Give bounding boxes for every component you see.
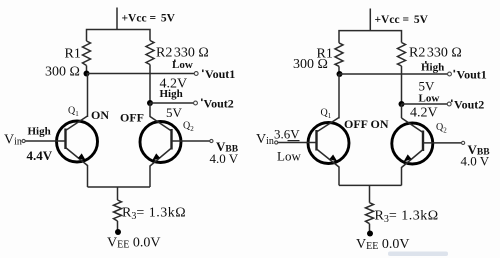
node junction dot A: R1 / Q1 collector / Vout1 (left)	[84, 71, 90, 77]
tick mark above Low (left)	[174, 60, 176, 63]
svg-text:Vout2: Vout2	[204, 97, 234, 111]
transistor Q2 (left, OFF) circle	[140, 122, 181, 163]
wire Vcc supply stub (right)	[369, 9, 371, 31]
svg-text:4.0 V: 4.0 V	[461, 153, 490, 168]
svg-text:3.6V: 3.6V	[274, 127, 300, 142]
node junction dot B2: R2 / Q2 collector / Vout2 (right)	[399, 101, 405, 107]
terminal Vout1 open circle (left)	[194, 72, 198, 76]
transistor Q2 emitter arrowhead	[152, 153, 160, 160]
node junction dot A2: R1 / Q1 collector / Vout1 (right)	[337, 71, 343, 77]
tick mark before Vout2 (right)	[451, 100, 453, 103]
svg-text:+Vcc = 5V: +Vcc = 5V	[122, 13, 176, 25]
svg-text:4.2V: 4.2V	[410, 106, 438, 121]
wire R2 bottom lead down to node B2 (right)	[401, 66, 403, 104]
transistor Q2 emitter diagonal	[150, 148, 172, 166]
transistor Q2 collector diagonal	[150, 117, 172, 132]
transistor Q1 collector diagonal	[66, 116, 88, 131]
svg-text:VEE 0.0V: VEE 0.0V	[356, 237, 409, 252]
resistor R2 (right, 330 ohm): top stub, zigzag	[398, 43, 406, 67]
svg-text:OFF: OFF	[344, 117, 368, 131]
transistor Q1 collector diagonal (right)	[317, 118, 340, 133]
transistor Q2 (right, ON) circle	[392, 123, 433, 164]
wire top rail (left)	[87, 30, 151, 42]
transistor Q1 emitter diagonal (right)	[317, 149, 340, 167]
svg-text:+Vcc = 5V: +Vcc = 5V	[375, 14, 429, 26]
svg-text:VEE 0.0V: VEE 0.0V	[107, 236, 160, 251]
wire Q2 emitter down to tail rail (right)	[401, 167, 403, 185]
terminal Vin open circle (right)	[275, 141, 278, 144]
svg-text:4.0 V: 4.0 V	[210, 151, 239, 166]
transistor Q2 collector diagonal (right)	[402, 118, 424, 133]
svg-text:Vout2: Vout2	[454, 98, 484, 112]
svg-text:300 Ω: 300 Ω	[293, 57, 328, 72]
wire Q1 collector lead vertical (right)	[338, 74, 340, 119]
terminal Vout2 open circle (right)	[447, 102, 451, 106]
transistor Q2 base bar	[170, 129, 172, 150]
wire Q2 base lead to VBB terminal (left)	[172, 140, 210, 142]
wire Q1 collector lead vertical (left)	[87, 74, 89, 118]
transistor Q1 (left, ON) circle	[57, 121, 98, 162]
resistor R1 (left, 300 ohm) zigzag	[83, 41, 91, 66]
resistor R2 (left, 330 ohm): top stub, zigzag	[146, 41, 154, 65]
tick mark before Vout1 (right)	[454, 70, 456, 73]
wire Q2 collector lead vertical (right)	[401, 104, 403, 118]
svg-text:High: High	[160, 88, 183, 100]
wire Q2 collector lead vertical (left)	[149, 103, 151, 117]
svg-text:R1: R1	[65, 47, 81, 62]
wire tail rail to R3 (right)	[369, 185, 371, 202]
terminal Vout2 open circle (left)	[194, 101, 198, 105]
svg-text:R2330 Ω: R2330 Ω	[156, 46, 209, 61]
wire common emitter tail rail (right)	[339, 184, 402, 186]
transistor Q1 (right, OFF) circle	[308, 123, 349, 164]
transistor Q1 emitter diagonal	[66, 148, 88, 166]
wire node B to Vout2 terminal (left)	[150, 102, 194, 104]
transistor Q2 emitter diagonal (right)	[402, 150, 424, 168]
wire R3 to VEE node (right)	[369, 224, 371, 233]
resistor R1 (right, 300 ohm) zigzag	[335, 43, 343, 66]
svg-text:4.4V: 4.4V	[27, 148, 53, 163]
transistor Q2 base bar (right)	[422, 131, 424, 152]
terminal VBB open circle (right)	[462, 141, 465, 144]
svg-text:ON: ON	[371, 117, 389, 131]
terminal Vin open circle (left)	[22, 139, 25, 142]
tick mark before Vout2 (left)	[201, 99, 203, 102]
wire R2 bottom lead down to node B (left)	[149, 65, 151, 104]
resistor R3 (left, 1.3k) zigzag	[114, 200, 122, 221]
wire common emitter tail rail (left)	[88, 186, 151, 188]
svg-text:OFF: OFF	[120, 111, 144, 125]
transistor Q1 base bar	[64, 129, 66, 150]
wire tail rail to R3 (left)	[117, 187, 119, 200]
node VEE dot (left)	[115, 229, 121, 235]
svg-text:5V: 5V	[166, 105, 183, 120]
svg-text:ON: ON	[91, 108, 109, 122]
transistor Q1 emitter arrowhead (right)	[329, 155, 337, 162]
tick mark before Vout1 (left)	[202, 70, 204, 73]
wire Q1 emitter down to tail rail (right)	[338, 167, 340, 186]
wire Vcc supply stub (left)	[116, 8, 118, 30]
wire Q1 emitter down to tail rail (left)	[87, 165, 89, 187]
svg-text:Vout1: Vout1	[457, 68, 487, 82]
svg-text:Vout1: Vout1	[205, 67, 235, 81]
svg-text:300 Ω: 300 Ω	[45, 65, 80, 80]
wire node A to Vout1 terminal (left)	[87, 73, 195, 75]
transistor Q1 emitter arrowhead	[78, 153, 86, 160]
transistor Q1 base bar (right)	[315, 130, 317, 151]
svg-text:High: High	[421, 62, 444, 74]
wire R1 bottom lead (right)	[338, 66, 340, 74]
underline under 3.6V (right)	[288, 140, 300, 142]
wire Q1 base lead from Vin (right)	[278, 142, 317, 144]
wire node A2 to Vout1 terminal (right)	[340, 73, 448, 75]
svg-text:High: High	[28, 126, 51, 138]
node junction dot B: R2 / Q2 collector / Vout2 (left)	[147, 100, 153, 106]
wire Q2 emitter down to tail rail (left)	[149, 166, 151, 188]
tick mark above High (right)	[425, 61, 427, 64]
terminal Vout1 open circle (right)	[448, 72, 452, 76]
svg-text:Low: Low	[277, 149, 301, 164]
wire Q2 base lead to VBB terminal (right)	[423, 142, 461, 144]
wire R1 bottom lead (left)	[86, 66, 88, 74]
wire top rail (right)	[339, 31, 402, 43]
transistor Q2 emitter arrowhead (right)	[404, 154, 412, 161]
svg-text:R2330 Ω: R2330 Ω	[409, 46, 462, 61]
wire R3 to VEE node (left)	[117, 221, 119, 231]
resistor R3 (right, 1.3k) zigzag	[366, 203, 374, 224]
decorative faint smudge bottom right	[388, 252, 448, 257]
wire Q1 base lead from Vin (left)	[25, 140, 65, 142]
wire node B2 to Vout2 terminal (right)	[402, 103, 448, 105]
svg-text:Low: Low	[419, 93, 440, 105]
terminal VBB open circle (left)	[210, 139, 213, 142]
node VEE dot (right)	[367, 231, 373, 237]
svg-text:5V: 5V	[419, 79, 436, 94]
